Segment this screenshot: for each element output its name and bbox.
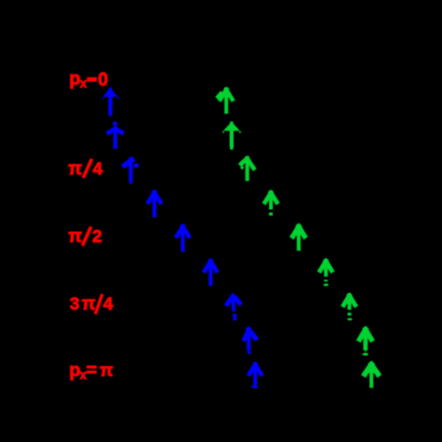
svg-text:π: π xyxy=(68,158,82,178)
blue arrow B9 (p_x=pi) xyxy=(249,362,261,385)
blue arrow B5 (p_x=pi/2) xyxy=(177,224,189,251)
blue arrow B8 bottom dash xyxy=(247,352,251,355)
svg-text:π: π xyxy=(82,293,96,313)
label p_x=pi xyxy=(69,359,113,382)
green arrow G8 (p_x=7pi/8) xyxy=(359,327,371,350)
blue arrow B6 (p_x=5pi/8) xyxy=(205,259,217,286)
svg-text:4: 4 xyxy=(103,294,113,314)
svg-text:0: 0 xyxy=(98,69,108,89)
svg-text:x: x xyxy=(80,77,87,91)
green arrow G1 extra barb fragment xyxy=(218,93,221,97)
blue arrow B9 bottom dash xyxy=(251,385,258,388)
svg-text:2: 2 xyxy=(92,226,102,246)
green arrow G8 shaft pinch xyxy=(364,349,366,352)
label p_x=0 xyxy=(69,68,108,91)
green arrow G8 bottom dash xyxy=(362,353,368,356)
blue arrow B4 (p_x=3pi/8) xyxy=(149,190,161,217)
green arrow G7 (p_x=3pi/4) xyxy=(344,294,355,321)
svg-text:3: 3 xyxy=(70,293,80,313)
green arrow G6 (p_x=5pi/8) xyxy=(320,259,331,286)
blue arrow B2 (p_x=pi/8) xyxy=(109,122,122,149)
green arrow G1 (p_x=0) xyxy=(220,88,232,114)
blue arrow B7 (p_x=3pi/4) xyxy=(227,294,239,321)
green arrow G9 (p_x=pi) xyxy=(365,362,378,388)
label 3pi/4 xyxy=(70,293,114,313)
green arrow G2 (p_x=pi/8) xyxy=(222,122,241,150)
svg-text:=: = xyxy=(86,359,97,380)
blue arrow B1 (p_x=0) xyxy=(102,88,119,117)
blue arrow B8 (p_x=7pi/8) xyxy=(244,327,255,351)
blue arrow B3 (p_x=pi/4) xyxy=(125,157,139,184)
svg-text:π: π xyxy=(100,360,113,380)
svg-text:4: 4 xyxy=(93,158,103,178)
green arrow G4 (p_x=3pi/8) xyxy=(265,191,277,216)
label pi/4 xyxy=(68,158,103,178)
green arrow G3 (p_x=pi/4) xyxy=(241,156,253,181)
svg-text:π: π xyxy=(68,226,82,246)
label pi/2 xyxy=(68,226,102,246)
green arrow G5 (p_x=pi/2) xyxy=(293,224,305,250)
